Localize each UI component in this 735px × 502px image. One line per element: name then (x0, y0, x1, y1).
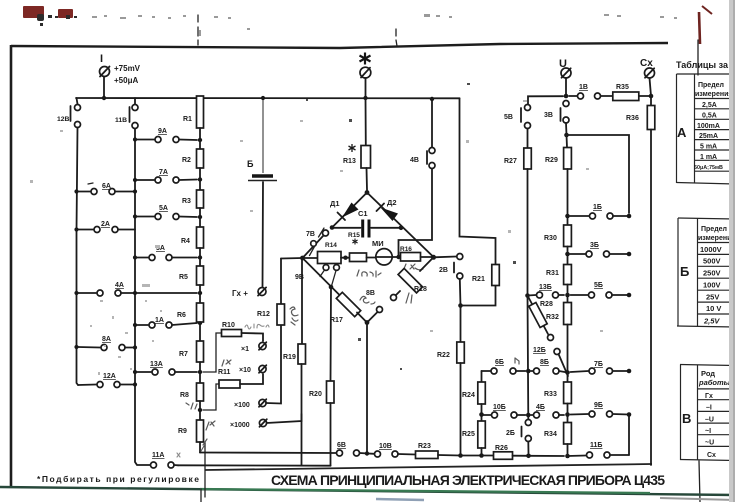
switch 3A (137, 255, 197, 261)
svg-text:R10: R10 (222, 322, 235, 329)
switch 13B (528, 292, 565, 298)
node 3B left (565, 252, 570, 257)
switch 3V top contact (563, 101, 569, 107)
wire x1000 to R19 lead (267, 414, 302, 423)
wire node down to R22 (460, 306, 462, 343)
dashed sheet mark above border at x=198 (197, 15, 199, 45)
svg-text:R18: R18 (414, 286, 427, 293)
svg-text:R19: R19 (283, 354, 296, 361)
svg-text:СХЕМА ПРИНЦИПИАЛЬНАЯ ЭЛЕКТРИЧЕ: СХЕМА ПРИНЦИПИАЛЬНАЯ ЭЛЕКТРИЧЕСКАЯ ПРИБО… (271, 472, 665, 488)
wire bus to R25 node (461, 455, 482, 457)
table A header (695, 82, 732, 98)
resistor R24 (478, 371, 486, 421)
svg-text:7Б: 7Б (594, 361, 603, 368)
main frame bottom sheet line (0, 487, 735, 495)
switch 8B (377, 295, 397, 313)
wire right bus bottom corner up (628, 415, 630, 456)
node 3A left (133, 255, 137, 259)
node: junction I on bus (102, 96, 106, 100)
node 13A left (133, 370, 137, 374)
svg-text:Гх: Гх (705, 393, 713, 400)
svg-text:10 V: 10 V (706, 304, 721, 313)
svg-text:×100: ×100 (234, 402, 250, 409)
diode D2 (377, 204, 399, 222)
wire R26 to 2B node (513, 455, 529, 457)
switch 12B contact lower (554, 349, 560, 355)
svg-text:100mА: 100mА (697, 123, 720, 130)
wire 7B to bridge left corner (303, 236, 324, 259)
wire stub bus to 11B top (134, 98, 136, 104)
wire R23 to node (438, 454, 461, 457)
svg-text:25V: 25V (706, 293, 719, 302)
switch 11B bar (129, 107, 131, 122)
battery B plates (248, 176, 277, 181)
terminal I (100, 67, 110, 77)
red diagonal mark top-right (699, 12, 700, 44)
svg-text:R27: R27 (504, 158, 517, 165)
node C1 on right edge (399, 226, 404, 231)
node 1A left (133, 323, 137, 327)
node R25 bottom on bus (479, 453, 484, 458)
node R20 tap on edge (329, 285, 334, 290)
svg-text:8В: 8В (366, 290, 375, 297)
wire battery to Gx terminal (262, 182, 265, 287)
wire: main top bus y=98 (76, 97, 460, 99)
svg-text:R33: R33 (544, 391, 557, 398)
wire terminal I down to bus (103, 77, 105, 98)
wire R20 from edge node down (330, 287, 333, 381)
wire R19 bottom lead to lower bus (301, 364, 303, 466)
pencil mark near R8 (186, 403, 197, 409)
wire bus to battery (faint) (262, 98, 264, 173)
node 12A right (133, 382, 137, 386)
svg-text:100V: 100V (703, 281, 721, 290)
table B header (698, 226, 735, 242)
wire mid bus x=135 (135, 129, 150, 466)
svg-text:4В: 4В (410, 157, 419, 164)
switch 2B(right) bar (521, 427, 523, 437)
resistor R4 (197, 227, 204, 266)
svg-text:7В: 7В (306, 231, 315, 238)
node 2A left (74, 227, 78, 231)
node 4B-9B chain junction (565, 412, 570, 417)
resistor R25 (478, 421, 486, 453)
node 1B left (565, 214, 570, 219)
resistor R30 (564, 225, 572, 265)
wire left bus x=76 (77, 128, 79, 386)
resistor R28 (diagonal) (529, 303, 547, 328)
wire bridge left corner to R12 (281, 257, 303, 260)
diode D1 (338, 203, 359, 221)
svg-text:измерения: измерения (695, 91, 732, 98)
svg-text:1000V: 1000V (700, 245, 722, 254)
svg-text:10Б: 10Б (493, 404, 506, 411)
resistor R19 (298, 344, 306, 364)
node 3B right (627, 252, 632, 257)
wire node to R21 bottom (461, 286, 496, 306)
dark speck pair mid sheet (306, 83, 516, 370)
switch 2A (78, 227, 135, 233)
switch 1B (570, 213, 629, 219)
resistor R15 (350, 253, 367, 262)
svg-text:12Б: 12Б (533, 347, 546, 354)
svg-text:1А: 1А (155, 317, 164, 324)
svg-text:12А: 12А (103, 373, 116, 380)
node 10B-4B junction (526, 413, 531, 418)
svg-text:С1: С1 (358, 209, 368, 218)
svg-text:R28: R28 (540, 301, 553, 308)
scan noise speckles top row (92, 14, 677, 36)
node R35-Cx junction (649, 94, 654, 99)
terminal Cx (645, 68, 655, 78)
svg-text:R24: R24 (462, 392, 475, 399)
switch 11B bottom contact (132, 123, 138, 129)
node 5A left (133, 214, 137, 218)
wire 6B(right) row to R24 top (482, 370, 491, 372)
svg-text:Таблицы за: Таблицы за (676, 60, 729, 70)
svg-text:+75mV: +75mV (114, 64, 141, 73)
svg-text:5А: 5А (159, 205, 168, 212)
svg-text:4Б: 4Б (536, 404, 545, 411)
svg-text:R21: R21 (472, 276, 485, 283)
wire 2B to bus (527, 442, 529, 454)
pencil marks near R18 (406, 293, 412, 303)
wire R12 top lead (280, 259, 282, 305)
svg-text:R11: R11 (218, 369, 231, 376)
node 13B right / chain (565, 293, 570, 298)
resistor R6 (197, 303, 204, 341)
switch 3B (570, 251, 629, 257)
wire bus to R34 node (529, 455, 565, 457)
svg-text:4А: 4А (115, 282, 124, 289)
svg-text:11Б: 11Б (590, 442, 602, 449)
resistor R31 (564, 265, 572, 303)
svg-text:В: В (682, 411, 691, 426)
svg-text:R22: R22 (437, 352, 450, 359)
svg-text:11В: 11В (115, 117, 127, 124)
wire bus corner down x=459 (460, 98, 496, 264)
wire bus to 11B switch (568, 455, 587, 458)
switch 5V bar (520, 108, 522, 122)
svg-text:Cх: Cх (640, 58, 653, 69)
svg-text:R7: R7 (179, 351, 188, 358)
wire stub bus to 12V top (77, 98, 78, 104)
resistor R26 (494, 452, 513, 460)
node 7B right bus (627, 369, 632, 374)
svg-text:6В: 6В (337, 442, 346, 449)
svg-text:I: I (100, 53, 103, 65)
resistor R36 (647, 96, 655, 130)
node arm after R14 (343, 256, 347, 260)
svg-text:0,5А: 0,5А (702, 113, 717, 120)
resistor R1 (197, 96, 204, 149)
svg-text:R36: R36 (626, 115, 639, 122)
scan noise patch lower-left (30, 100, 603, 375)
pencil 1k near R16 (403, 264, 423, 271)
switch 5V top contact (525, 105, 531, 111)
svg-text:R31: R31 (546, 270, 559, 277)
wire junction to right bus top (567, 135, 630, 213)
resistor R17 (diagonal) (336, 292, 360, 316)
resistor R7 (197, 341, 204, 383)
wire 4B to meter arm (399, 169, 433, 256)
svg-text:R14: R14 (325, 242, 337, 249)
svg-text:5 mА: 5 mА (700, 144, 717, 151)
svg-text:10В: 10В (379, 443, 392, 450)
resistor R33 (564, 373, 572, 423)
node 2B bottom on bus (526, 454, 531, 459)
node 7A left (133, 178, 137, 182)
x529 vertical from 13B down (527, 296, 530, 420)
wire R15 to meter (367, 257, 377, 259)
resistor R18 (diagonal) (398, 268, 422, 292)
switch 4B top contact (429, 148, 435, 154)
switch 3V bottom contact (563, 117, 569, 123)
pencil squiggle right of R12 (290, 307, 298, 325)
svg-text:Б: Б (680, 264, 689, 279)
svg-text:×1000: ×1000 (230, 422, 250, 429)
wire bridge edge bottom-left upper part (303, 258, 341, 296)
resistor R35 (613, 92, 639, 101)
node R1-R2 junction (198, 138, 202, 142)
node U junction (564, 94, 569, 99)
node bridge left-upper corner (330, 225, 335, 230)
svg-text:5В: 5В (504, 114, 513, 121)
switch 12B bottom contact (75, 122, 81, 128)
node R33 top (565, 370, 570, 375)
dashed sheet mark above border at x=396 (396, 29, 397, 46)
svg-text:R15: R15 (348, 232, 360, 239)
wire 3V down to junction (565, 123, 568, 135)
resistor R3 (197, 190, 204, 227)
table B rows (700, 245, 722, 326)
wire R11 to x10 terminal (240, 374, 263, 384)
node 4A right (198, 291, 202, 295)
resistor R8 (197, 383, 204, 420)
wire upper bottom bus (200, 452, 336, 455)
resistor R29 (564, 148, 572, 226)
sheet vertical x=201 below border (200, 489, 202, 502)
svg-text:1 mА: 1 mА (700, 154, 717, 161)
pencil 1k above R11 (222, 360, 231, 366)
pencil mark near 11A (177, 453, 180, 457)
node bridge drop on bus (365, 451, 369, 455)
switch 7A (137, 177, 197, 183)
switch 2B bottom contact (457, 273, 463, 279)
node 6B-8B junction (526, 369, 531, 374)
capacitor C1 (334, 220, 401, 238)
red corner marks top-left (23, 6, 73, 18)
terminal x1 (259, 342, 266, 350)
node 8A right (133, 345, 137, 349)
svg-text:7А: 7А (159, 169, 168, 176)
svg-text:8А: 8А (102, 336, 111, 343)
wire edge to 8B upper contact (396, 291, 400, 295)
switch 4B bottom contact (429, 163, 435, 169)
switch 8A (78, 345, 135, 351)
switch 6B (337, 450, 375, 456)
svg-text:12В: 12В (57, 116, 70, 123)
svg-text:R1: R1 (183, 116, 192, 123)
grey stamp marks bottom (376, 499, 424, 500)
svg-text:~U: ~U (705, 440, 714, 447)
wire lower bottom bus (178, 464, 331, 466)
meter MI (376, 249, 393, 265)
svg-text:R12: R12 (257, 311, 270, 318)
terminal Gx (258, 287, 266, 295)
green tinted bottom line overlay (200, 489, 650, 493)
switch 9B(right) (571, 411, 630, 417)
svg-text:9А: 9А (158, 128, 167, 135)
svg-text:–I: –I (706, 405, 712, 412)
switch 10B (375, 451, 416, 457)
svg-text:Сх: Сх (707, 452, 716, 459)
svg-text:500V: 500V (703, 257, 721, 266)
switch 11B(right) (587, 452, 630, 458)
resistor R27 (524, 148, 532, 293)
switch 1A (137, 322, 197, 328)
wire R35 to Cx line (639, 95, 651, 97)
node 7B circle (323, 230, 329, 236)
switch 12A (78, 382, 135, 388)
svg-text:R8: R8 (180, 392, 189, 399)
wire R16 to right corner (421, 256, 434, 258)
wire bottom corner down to bus (366, 323, 368, 454)
svg-text:×1: ×1 (241, 346, 249, 353)
node bridge bottom corner (365, 320, 370, 325)
wire bridge edge bottom-right upper part (420, 257, 434, 271)
resistor R12 (277, 304, 285, 325)
node 7A right (198, 177, 202, 181)
svg-text:13Б: 13Б (539, 284, 552, 291)
svg-text:работы: работы (698, 378, 731, 387)
terminal x10 (259, 365, 266, 373)
switch 6A (78, 189, 135, 195)
svg-text:R23: R23 (418, 443, 431, 450)
wire 4B down (431, 99, 433, 148)
node 3A right (198, 255, 202, 259)
switch 5B(right) (571, 292, 630, 298)
wire Cx down (650, 78, 652, 96)
resistor R32 (564, 303, 572, 372)
switch 11B top contact (132, 105, 138, 111)
wire 8B lower contact to bottom corner (367, 312, 378, 323)
wire R29 top lead (566, 135, 569, 148)
svg-text:R30: R30 (544, 235, 557, 242)
wire 12B diagonal lower to R33 (559, 354, 569, 376)
svg-text:R9: R9 (178, 428, 187, 435)
terminal x1000 (259, 419, 266, 427)
svg-text:2В: 2В (439, 267, 448, 274)
table V rows (705, 393, 716, 459)
resistor R16 (401, 253, 421, 262)
node 13B left junction (525, 293, 530, 298)
main frame border top (11, 43, 668, 48)
svg-text:Д1: Д1 (330, 199, 340, 208)
wire U down (565, 78, 567, 96)
wire 2B down to node (459, 279, 462, 306)
resistor R10 (222, 330, 242, 337)
node bridge right corner (431, 255, 436, 260)
wire terminal down through bus (365, 78, 367, 145)
svg-text:25mА: 25mА (699, 133, 718, 140)
node 3V junction (564, 133, 569, 138)
wire R11 tap from node R8-R9 (203, 384, 219, 410)
terminal x100 (259, 399, 266, 407)
switch 2B(right) bottom contact (525, 436, 531, 442)
resistor R20 (327, 381, 335, 403)
svg-text:2,5V: 2,5V (703, 317, 720, 326)
svg-text:Б: Б (247, 159, 254, 169)
svg-text:1Б: 1Б (593, 204, 602, 211)
slash 7B (319, 228, 325, 237)
switch 1V (569, 93, 613, 99)
wire 13B diagonal upper (528, 296, 549, 335)
svg-text:2А: 2А (101, 221, 110, 228)
switch 4B bar (426, 151, 428, 164)
terminal U (561, 68, 571, 78)
svg-text:1В: 1В (579, 84, 588, 91)
svg-text:R17: R17 (330, 317, 343, 324)
node 10B tap (479, 412, 484, 417)
resistor R5 (197, 266, 204, 303)
node 6A right (133, 189, 137, 193)
node 1A right (198, 321, 202, 325)
sheet vertical line above table A (697, 40, 699, 75)
wire meter to R16 (393, 256, 401, 258)
switch 7B(right) (571, 368, 630, 374)
table B frame (677, 218, 735, 327)
resistor R2 (197, 149, 204, 190)
main frame border left (10, 45, 13, 488)
svg-text:8Б: 8Б (540, 359, 549, 366)
svg-text:–U: –U (705, 417, 714, 424)
svg-text:Предел: Предел (698, 82, 724, 89)
wire bridge arm left (303, 257, 319, 259)
resistor R23 (416, 451, 439, 459)
node 4B on bus (430, 97, 434, 101)
pencil note 1ko5 (357, 270, 381, 277)
svg-text:Д2: Д2 (387, 198, 397, 207)
svg-text:R25: R25 (462, 431, 475, 438)
svg-text:R20: R20 (309, 391, 322, 398)
wire bridge edge bottom-left lower part (357, 313, 367, 323)
svg-text:R35: R35 (616, 84, 629, 91)
switch 13A (137, 369, 197, 375)
node 13A right (198, 370, 202, 374)
wire R20 bottom lead to lower bus (330, 403, 332, 466)
resistor R34 (564, 423, 572, 457)
star mark R13 (349, 144, 356, 152)
wire 5V to R27 (527, 129, 529, 149)
switch 5A (137, 214, 197, 220)
svg-text:11А: 11А (152, 452, 164, 459)
wire R10 tap from node R7-R8 (203, 333, 221, 372)
svg-text:250V: 250V (703, 269, 721, 278)
grey scan band right edge (729, 0, 735, 502)
wire x100 to R12 bottom (266, 325, 281, 404)
R14 wiper terminal (310, 241, 317, 256)
wire bridge edge top-left (332, 193, 367, 228)
switch 8B(right) (531, 368, 568, 374)
node 4A mid bus (133, 291, 137, 295)
wire U junction left to 5V branch (528, 96, 563, 104)
node R21 bottom junction (458, 303, 463, 308)
switch 10B(right) (482, 412, 526, 418)
switch 2B(right) top contact (525, 420, 531, 426)
svg-text:R32: R32 (546, 314, 559, 321)
wire R10 to x1 terminal (242, 333, 264, 341)
